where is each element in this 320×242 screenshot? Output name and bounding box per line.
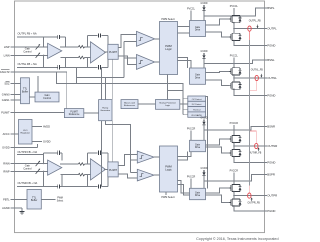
- svg-text:PLIMIT: PLIMIT: [70, 111, 78, 113]
- net label PVCCL gd 1: [187, 8, 196, 11]
- net label OUTNL_FB: [251, 70, 263, 78]
- pin BSPL (right 1): [265, 6, 275, 10]
- wire fb elbow c3: [250, 130, 256, 132]
- svg-text:Control: Control: [43, 97, 51, 100]
- wire fb out riser R: [61, 175, 63, 187]
- wire PGND 4: [234, 206, 265, 211]
- op-amp U4 integrator R: [91, 159, 106, 180]
- block Biases and References: [121, 100, 138, 109]
- net label OUTPR FB / NA: [18, 150, 38, 154]
- copyright notice: [196, 237, 278, 241]
- pin GAIN0: [2, 92, 10, 96]
- block TTL Buffer gain: [21, 78, 30, 104]
- net label OUTNL FB / NA: [18, 62, 37, 66]
- svg-text:GVDD: GVDD: [201, 167, 208, 170]
- net label PVCCL fet 2: [230, 55, 239, 58]
- wire pin LINP: [10, 46, 47, 48]
- wire int riser left L: [87, 36, 89, 47]
- svg-text:OUTNL_FB: OUTNL_FB: [251, 70, 263, 72]
- wire GVDD out: [32, 141, 42, 143]
- block UVLO Detect: [188, 112, 206, 117]
- wire R to U4 lower: [85, 174, 91, 176]
- svg-text:Drive: Drive: [195, 194, 201, 197]
- wire R to U2 upper: [85, 46, 91, 48]
- net label GVDD 4: [201, 167, 208, 170]
- junction RINP summing node: [43, 171, 44, 172]
- wire PWM2 outA: [178, 152, 192, 157]
- wire PGND 3: [234, 157, 265, 163]
- transistor Q2H: [230, 68, 242, 76]
- wire integrator top row R: [88, 152, 108, 154]
- svg-text:OUTNR FB ÷ NA: OUTNR FB ÷ NA: [18, 181, 38, 185]
- svg-text:PVCCL: PVCCL: [187, 8, 196, 11]
- wire bootstrap 2: [204, 60, 265, 63]
- svg-text:OUTNL FB ÷ NA: OUTNL FB ÷ NA: [18, 62, 37, 66]
- wire PBTL out: [41, 199, 55, 201]
- svg-text:RINN: RINN: [3, 162, 9, 166]
- block PWM Logic L: [160, 22, 178, 75]
- resistor R int RP: [79, 163, 85, 166]
- pin BSPR (right 10): [265, 173, 275, 177]
- op-amp U2 integrator L: [91, 42, 106, 63]
- diode bootstrap D3: [202, 119, 205, 140]
- wire integrator top row L: [88, 35, 108, 37]
- wire U3 out upper: [60, 163, 78, 165]
- wire pin FAULTZ: [10, 71, 66, 73]
- net label OUTNR_FB: [249, 148, 262, 155]
- svg-text:Ramp: Ramp: [102, 108, 109, 110]
- wire fb riser to RINN node: [43, 153, 45, 164]
- wire cap row drop L: [101, 67, 103, 99]
- block TTL Buffer pbtl: [27, 190, 41, 210]
- wire U4 out to PLIMIT R: [104, 168, 108, 170]
- capacitor CintNR: [99, 184, 101, 188]
- wire U2 out to PLIMIT L: [104, 51, 108, 53]
- wire feedback sense bus: [249, 40, 251, 186]
- block PLIMIT Reference: [64, 109, 83, 118]
- svg-text:AVCC: AVCC: [3, 132, 10, 136]
- svg-text:LINP: LINP: [4, 45, 10, 49]
- wire PWM1 outD: [178, 61, 192, 69]
- wire int riser right R: [107, 153, 109, 166]
- wire pin SDZ: [10, 83, 20, 85]
- wire PGND 1: [234, 41, 265, 46]
- comparator CMP2 L: [137, 55, 155, 70]
- wire PWM2 outC: [178, 181, 190, 193]
- wire fb elbow c2: [250, 89, 257, 91]
- wire OUTPL_FB red stub: [249, 31, 251, 40]
- svg-text:PWM Select: PWM Select: [161, 18, 174, 21]
- block Gate Drive 4: [190, 188, 206, 199]
- net label GVDD 3: [201, 117, 208, 120]
- svg-text:Buffer: Buffer: [22, 91, 29, 94]
- wire ramp up stub: [104, 78, 106, 100]
- resistor R int LN: [79, 56, 85, 59]
- svg-text:Buffer: Buffer: [31, 199, 38, 202]
- wire int riser right L: [107, 36, 109, 48]
- svg-text:Thermal: Thermal: [193, 109, 201, 111]
- block PWM Logic R: [160, 146, 178, 192]
- junction OUT node 4: [233, 195, 234, 196]
- wire U3 out lower: [61, 174, 79, 176]
- block Gate Drive 3: [190, 140, 206, 151]
- chip boundary frame: [15, 1, 265, 233]
- svg-text:Regulator: Regulator: [20, 132, 30, 135]
- svg-text:PWM Select: PWM Select: [161, 196, 174, 199]
- diode bootstrap D2: [202, 53, 205, 68]
- wire OUTPR cap row: [44, 152, 62, 154]
- svg-text:OUTPL: OUTPL: [267, 27, 277, 31]
- capacitor CfbPL: [58, 35, 60, 39]
- svg-text:Drive: Drive: [195, 76, 201, 79]
- svg-text:PVCCR: PVCCR: [187, 127, 196, 130]
- svg-text:OC Detect: OC Detect: [192, 98, 202, 101]
- svg-text:BSPL: BSPL: [267, 6, 275, 10]
- current sense marker OUTNL_FB: [255, 75, 258, 80]
- wire OUT 2: [234, 77, 265, 79]
- wire FAULTZ drop to plimit ref: [66, 72, 68, 109]
- wire OUTPR_FB red stub: [248, 186, 250, 194]
- wire U1 out upper: [60, 46, 78, 48]
- block DC Detect: [188, 101, 206, 106]
- net label GVDD 1: [201, 2, 208, 5]
- resistor R int LP: [79, 46, 85, 49]
- svg-text:SDZ: SDZ: [4, 82, 10, 86]
- op-amp U1 input L: [48, 43, 62, 58]
- wire detect sense bus: [206, 96, 208, 188]
- svg-text:AGND: AGND: [2, 206, 10, 210]
- svg-text:Logic: Logic: [165, 105, 170, 107]
- svg-text:References: References: [124, 104, 136, 107]
- wire PVCCL drain 2: [233, 58, 235, 68]
- wire OUTNL feedback row: [17, 66, 108, 68]
- net label PVCCR gd 4: [187, 175, 196, 178]
- svg-text:FAULTZ: FAULTZ: [0, 70, 10, 74]
- comparator CMP1 L: [137, 31, 155, 46]
- pin FAULTZ: [0, 70, 10, 74]
- capacitor CfbPR: [58, 151, 60, 155]
- net label PWM Select bottom: [161, 196, 174, 199]
- wire pin PBTL: [10, 199, 27, 201]
- wire ramp tap comp4: [131, 171, 138, 173]
- gain arrow LINP: [36, 44, 40, 49]
- svg-text:PVCCL: PVCCL: [230, 5, 239, 8]
- svg-text:GVDD: GVDD: [43, 140, 51, 144]
- op-amp U3 input R: [48, 160, 62, 175]
- gain arrow LINN: [36, 53, 40, 58]
- svg-text:GVDD: GVDD: [201, 2, 208, 5]
- junction LINN summing node: [43, 55, 44, 56]
- wire pin RINP: [10, 170, 47, 172]
- wire fb out riser N: [65, 58, 67, 68]
- pin GAIN1: [2, 98, 10, 102]
- svg-text:BSNL: BSNL: [267, 58, 275, 62]
- capacitor CintPR: [99, 151, 101, 155]
- transistor Q4L: [230, 199, 242, 207]
- wire gate low 3: [206, 147, 230, 153]
- wire PLIMIT top link R: [111, 121, 113, 162]
- svg-text:OUTPL FB ÷ NA: OUTPL FB ÷ NA: [18, 32, 37, 36]
- wire half-bridge mid 4: [233, 192, 235, 199]
- wire R to U2 lower: [85, 57, 91, 59]
- svg-text:Startup Protection: Startup Protection: [159, 102, 176, 105]
- current sense marker OUTNR_FB: [255, 143, 258, 148]
- pin PGND (right 9): [265, 161, 276, 165]
- svg-text:GVDD: GVDD: [201, 117, 208, 120]
- pin OUTPR (right 11): [265, 194, 278, 198]
- net label AVDD: [43, 125, 50, 129]
- net label OUTNR FB / NA: [18, 181, 38, 185]
- wire half-bridge mid 3: [233, 143, 235, 150]
- net label OUTPR_FB: [248, 198, 261, 205]
- block Gain Control: [35, 92, 59, 102]
- wire OUTNL_FB red stub: [256, 81, 258, 91]
- wire AVDD out: [32, 126, 42, 128]
- wire fb riser to LINP node: [43, 37, 45, 47]
- wire int riser right low L: [107, 56, 109, 67]
- svg-text:OUTNR_FB: OUTNR_FB: [249, 152, 262, 154]
- wire PWM2 outB: [178, 152, 188, 160]
- block Gate Drive 1: [190, 21, 206, 37]
- wire CMP3 out: [154, 156, 160, 158]
- comparator CMP4 R: [137, 169, 154, 181]
- wire gain ctl link L: [37, 76, 39, 92]
- wire OUT 4: [234, 195, 265, 197]
- svg-text:Generator: Generator: [100, 109, 110, 112]
- pin AGND: [2, 206, 10, 210]
- block PLIMIT R: [108, 162, 118, 177]
- net label PWM Select top: [161, 18, 174, 21]
- svg-text:Reference: Reference: [69, 113, 80, 116]
- wire bootstrap 4: [204, 175, 265, 182]
- svg-text:GAIN0: GAIN0: [2, 92, 10, 96]
- wire pin GAIN1: [10, 99, 20, 101]
- block OC Detect: [188, 96, 206, 101]
- wire pin RINN: [10, 163, 47, 165]
- pin PBTL: [3, 198, 10, 202]
- wire TTL out gain: [29, 96, 35, 98]
- svg-text:Logic: Logic: [165, 168, 172, 172]
- wire ramp bus vertical: [123, 41, 125, 77]
- pin RINP: [3, 169, 9, 173]
- wire SPL to detects: [180, 99, 188, 115]
- pin GVDD: [2, 145, 10, 149]
- wire U1 out lower: [61, 57, 79, 59]
- svg-text:PLIMIT: PLIMIT: [109, 169, 118, 172]
- svg-text:PGND: PGND: [267, 161, 275, 165]
- wire PLIMIT outB R: [118, 174, 137, 178]
- wire PVCCR gd stem 3: [190, 131, 192, 141]
- svg-text:Logic: Logic: [165, 47, 172, 51]
- wire ramp tap comp3: [131, 159, 138, 161]
- pin PLIMIT: [1, 111, 10, 115]
- svg-text:OUTPR_FB: OUTPR_FB: [248, 202, 261, 204]
- wire gate low 4: [206, 195, 230, 202]
- svg-text:Gate: Gate: [195, 73, 201, 76]
- pin PGND (right 3): [265, 44, 276, 48]
- svg-text:OUTPR FB ÷ NA: OUTPR FB ÷ NA: [18, 150, 38, 154]
- gain arrow RINN: [36, 161, 40, 166]
- wire ramp down feed: [106, 121, 131, 173]
- transistor Q2L: [230, 82, 242, 90]
- svg-text:PGND: PGND: [267, 94, 275, 98]
- svg-text:PVCCL: PVCCL: [230, 55, 239, 58]
- pin OUTNL (right 5): [265, 76, 278, 80]
- wire PWM1 outC: [178, 58, 188, 69]
- pin SDZ: [4, 81, 10, 85]
- wire pin LINN: [10, 54, 47, 56]
- wire OUTNR feedback row: [17, 186, 108, 188]
- transistor Q3H: [230, 135, 242, 143]
- diode bootstrap D1: [202, 5, 205, 21]
- wire CMP1 out: [155, 38, 160, 40]
- wire fb riser to LINN node: [43, 55, 45, 67]
- junction LINP summing node: [43, 46, 44, 47]
- gain arrow RINP: [36, 169, 40, 174]
- wire ramp bus elbow: [76, 67, 78, 83]
- wire PVCCL gd stem 1: [190, 11, 192, 21]
- svg-text:DC Detect: DC Detect: [192, 103, 202, 106]
- wire CMP4 out: [154, 174, 160, 176]
- wire OUTPL feedback row: [17, 36, 66, 38]
- wire PLIMIT outA L: [118, 35, 136, 48]
- capacitor CintPL: [99, 33, 101, 37]
- wire PGND 2: [234, 89, 265, 95]
- resistor R int RN: [79, 173, 85, 176]
- wire OUT 1: [234, 28, 265, 30]
- block Gate Drive 2: [190, 68, 206, 84]
- wire PVCCR gd stem 4: [190, 179, 192, 189]
- wire gate low 1: [206, 32, 230, 37]
- wire PLIMIT bottom link: [111, 59, 113, 99]
- net label OUTPL_FB: [249, 20, 261, 28]
- wire bootstrap 3: [204, 127, 265, 131]
- svg-text:Copyright © 2016, Texas Instru: Copyright © 2016, Texas Instruments Inco…: [196, 237, 278, 241]
- svg-text:BSNR: BSNR: [267, 125, 275, 129]
- wire PLIMIT ref to ramp: [84, 112, 99, 114]
- wire GVDD pin rise: [37, 144, 39, 147]
- svg-text:Drive: Drive: [195, 146, 201, 149]
- transistor Q3L: [230, 149, 242, 157]
- svg-text:Drive: Drive: [195, 29, 201, 32]
- wire half-bridge mid 2: [233, 75, 235, 82]
- pin BSNL (right 4): [265, 58, 276, 62]
- wire PVCCR drain 3: [233, 125, 235, 135]
- svg-text:PBTL: PBTL: [3, 198, 10, 202]
- wire PLIMIT outB L: [118, 56, 136, 64]
- wire int riser left R: [87, 153, 89, 164]
- junction OUT node 2: [233, 77, 234, 78]
- wire PWM2 outD: [178, 185, 190, 196]
- diode bootstrap D4: [202, 170, 205, 188]
- svg-text:GAIN1: GAIN1: [2, 98, 10, 102]
- current sense marker OUTPR_FB: [248, 193, 251, 198]
- svg-text:AVDD: AVDD: [43, 125, 50, 129]
- svg-text:Select: Select: [57, 199, 64, 202]
- block Thermal Detect: [188, 107, 206, 112]
- wire gate high 2: [206, 71, 230, 72]
- pin AVCC: [3, 132, 10, 136]
- pin OUTNR (right 8): [265, 144, 278, 148]
- pin BSNR (right 7): [265, 125, 276, 129]
- net label GVDD 2: [201, 50, 208, 53]
- junction OUT node 1: [233, 28, 234, 29]
- wire FAULTZ route: [57, 72, 183, 99]
- svg-text:Control: Control: [23, 167, 32, 170]
- svg-text:OUTNR: OUTNR: [267, 144, 277, 148]
- svg-text:GVDD: GVDD: [201, 50, 208, 53]
- svg-text:Control: Control: [23, 51, 32, 54]
- capacitor CfbNR: [58, 184, 60, 188]
- pin LINP: [4, 45, 10, 49]
- svg-text:RINP: RINP: [3, 169, 9, 173]
- svg-text:PGND: PGND: [267, 44, 275, 48]
- pin PGND (right 12): [265, 209, 276, 213]
- wire gate low 2: [206, 80, 230, 86]
- wire pin AGND: [10, 207, 22, 209]
- svg-text:Gate: Gate: [195, 26, 201, 29]
- wire fb elbow to amp out: [65, 37, 67, 47]
- net label PWM Select pbtl: [57, 198, 64, 203]
- wire cap row rise R: [101, 121, 103, 187]
- current sense marker OUTPL_FB: [248, 26, 251, 31]
- pin RINN: [3, 162, 9, 166]
- wire OUT 3: [234, 145, 265, 147]
- capacitor CfbNL: [58, 65, 60, 69]
- block PLIMIT L: [108, 44, 118, 59]
- net label OUTPL FB / NA: [18, 32, 37, 36]
- wire PWM1 outB: [178, 32, 190, 34]
- svg-text:PLIMIT: PLIMIT: [1, 111, 10, 115]
- wire OUTNR_FB red stub: [255, 131, 257, 144]
- net label PVCCR fet 4: [230, 170, 239, 173]
- comparator CMP3 R: [137, 151, 154, 163]
- wire int riser left low R: [87, 175, 89, 187]
- wire fb elbow to amp out R: [61, 153, 63, 161]
- svg-text:OUTPR: OUTPR: [267, 194, 277, 198]
- wire half-bridge mid 1: [233, 23, 235, 34]
- wire biases to SPL: [138, 103, 156, 105]
- svg-text:LDO: LDO: [23, 130, 28, 132]
- svg-text:Gate: Gate: [195, 191, 201, 194]
- wire PWM select stub R: [165, 192, 167, 195]
- pin PGND (right 6): [265, 94, 276, 98]
- wire gate high 3: [206, 139, 230, 145]
- svg-text:PLIMIT: PLIMIT: [109, 51, 118, 54]
- block Startup Protection Logic: [156, 100, 180, 110]
- wire int riser left low L: [87, 58, 89, 68]
- wire pin PLIMIT: [10, 112, 64, 114]
- junction OUT node 3: [233, 145, 234, 146]
- label gain control R: [23, 164, 32, 170]
- wire PWM1 outA: [178, 26, 190, 28]
- svg-text:PGND: PGND: [267, 209, 275, 213]
- pin OUTPL (right 2): [265, 27, 278, 31]
- svg-text:PVCCR: PVCCR: [230, 170, 239, 173]
- block Ramp Generator: [99, 100, 112, 121]
- pin LINN: [4, 53, 10, 57]
- wire ramp tap comp2: [124, 57, 136, 59]
- wire bootstrap 1: [204, 8, 265, 16]
- wire pin GAIN0: [10, 93, 20, 95]
- capacitor CintNL: [99, 65, 101, 69]
- net label PVCCR gd 3: [187, 127, 196, 130]
- wire CMP2 out: [155, 61, 160, 63]
- wire OUTPR label row: [17, 154, 44, 156]
- junction RINN summing node: [43, 163, 44, 164]
- svg-text:PVCCR: PVCCR: [230, 122, 239, 125]
- transistor Q4H: [230, 184, 242, 192]
